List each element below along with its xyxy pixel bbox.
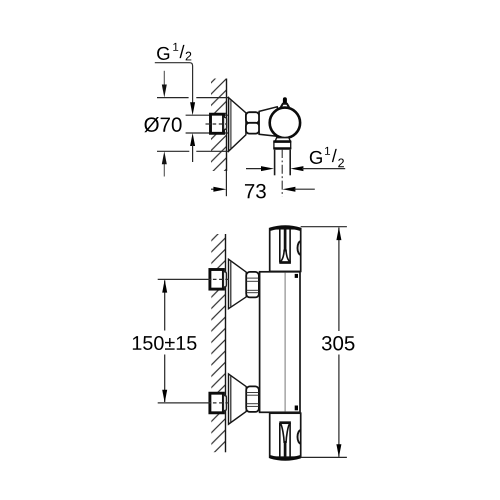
G1/2 second arrow (up at line C)	[190, 133, 195, 162]
escutcheon base inner line	[230, 100, 232, 150]
top nipple end bracket	[223, 272, 226, 287]
305 dimension line	[336, 227, 341, 457]
G1/2 leader arrowhead (down at line B)	[190, 102, 195, 115]
top handle grip notch	[279, 229, 291, 263]
bottom handle thick bottom band	[270, 457, 300, 459]
label 73	[245, 184, 266, 199]
nipple end bracket	[224, 117, 227, 129]
wall hatching (bottom figure)	[211, 234, 225, 452]
wall face line (top figure)	[226, 79, 228, 172]
150±15 dimension line	[162, 280, 167, 403]
top square nut in wall	[210, 270, 224, 290]
label G1/2 (top-left)	[157, 43, 191, 61]
collar below circle	[275, 138, 290, 142]
73 dimension left arrow	[211, 187, 226, 192]
bottom square nut in wall	[210, 393, 224, 413]
mixer body	[260, 272, 300, 413]
G1/2 outlet dimension left arrow	[246, 166, 274, 171]
bottom nipple end bracket	[223, 396, 226, 411]
outlet nut	[274, 142, 291, 149]
bottom handle side button oval	[298, 430, 301, 444]
bottom connection centerline	[158, 402, 212, 404]
outlet pipe walls	[274, 150, 276, 176]
body shading line	[284, 273, 286, 412]
wall face line (bottom figure)	[225, 234, 227, 452]
73 dimension right arrow	[282, 187, 314, 192]
temperature stem on top of valve	[283, 97, 287, 104]
top handle thick top band	[270, 227, 300, 229]
body stop screw (top)	[295, 274, 298, 278]
top union ring nut	[246, 272, 259, 298]
Ø70 top extension line (line A, broken at leader crossing)	[157, 97, 189, 99]
outlet pipe centerline	[281, 149, 283, 197]
top handle side button oval	[298, 241, 301, 255]
escutcheon cone (top figure)	[229, 98, 246, 152]
label Ø70	[144, 117, 181, 132]
label 305	[322, 336, 355, 351]
nipple bottom edge line (line C)	[186, 132, 229, 134]
label G1/2 (right)	[310, 147, 344, 167]
bottom union ring nut	[246, 386, 259, 412]
top connection centerline	[158, 278, 212, 280]
bottom handle	[270, 413, 301, 457]
305 top extension line	[301, 226, 347, 228]
stem flare	[281, 104, 290, 108]
top escutcheon cone	[229, 259, 247, 309]
body stop screw (bottom)	[295, 406, 298, 411]
wall face extension line for 73 dim	[225, 171, 227, 196]
square nut in wall (top figure)	[211, 114, 224, 133]
valve body circle U	[270, 108, 300, 138]
bottom escutcheon cone	[229, 374, 247, 424]
nipple top edge line (line B)	[186, 114, 229, 116]
G1/2 outlet dimension right arrow + leader under text	[290, 166, 345, 171]
bottom handle grip notch	[279, 423, 291, 457]
wall connection centerline (top figure)	[206, 123, 212, 125]
Ø70 bottom extension line (line D, broken at arrow tail crossing)	[157, 150, 189, 152]
union nut rings (top figure)	[246, 112, 259, 123]
valve body cone (top figure)	[259, 107, 280, 137]
G1/2 leader line with corner	[155, 63, 193, 104]
305 bottom extension line	[301, 456, 347, 458]
Ø70 dimension arrow (up, below line D)	[162, 151, 167, 176]
Ø70 dimension arrow (down, above line A)	[162, 71, 167, 98]
label 150±15	[133, 336, 197, 350]
top handle	[270, 229, 301, 272]
wall hatching (top figure)	[211, 79, 227, 172]
